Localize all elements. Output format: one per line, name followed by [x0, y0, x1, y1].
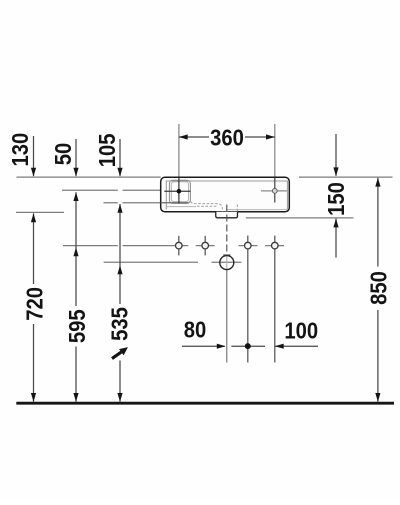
drain circle — [220, 256, 234, 270]
dimension 535 line — [119, 204, 121, 402]
floor line — [16, 402, 394, 405]
bowl bottom level line inside basin — [161, 202, 189, 204]
basin bottom level extension line — [16, 211, 64, 213]
mounting holes level extension line — [63, 245, 284, 247]
dimension 720 line — [33, 213, 35, 401]
svg-text:535: 535 — [106, 307, 133, 341]
mounting hole cross 1 — [176, 236, 183, 256]
dimension 80 line — [182, 345, 225, 347]
svg-text:100: 100 — [284, 317, 318, 344]
dimension 105 upper arrow line — [119, 139, 121, 176]
svg-text:360: 360 — [210, 124, 244, 151]
right mounting hole cross in basin — [261, 178, 287, 203]
dimension 360 extension line right — [274, 124, 276, 177]
svg-text:50: 50 — [50, 143, 77, 166]
svg-text:720: 720 — [21, 287, 48, 321]
svg-text:105: 105 — [94, 134, 121, 168]
dimension 850 line — [377, 178, 379, 402]
rim level extension line left — [17, 176, 161, 178]
mounting hole cross 4 — [272, 236, 279, 363]
basin inner bottom lines — [166, 207, 287, 210]
mounting hole cross 2 — [202, 236, 209, 256]
drain cover tab — [216, 212, 238, 218]
rim level extension line right — [299, 176, 393, 178]
bowl bottom level extension line — [104, 202, 161, 204]
tap hole level extension line — [62, 189, 161, 191]
mounting hole cross 3 — [245, 236, 252, 363]
basin outline — [161, 177, 290, 212]
dimension 595 line — [75, 192, 77, 402]
dimension 360 extension line left — [178, 124, 180, 177]
tap hole cross — [164, 178, 190, 204]
svg-text:130: 130 — [7, 133, 34, 167]
bowl inner rim — [171, 182, 188, 202]
svg-text:850: 850 — [365, 271, 392, 305]
dimension 150 lower line — [335, 219, 337, 258]
adjustable height arrow symbol — [112, 347, 128, 359]
dimension 130 upper arrow line — [33, 136, 35, 176]
dimension 150 upper line — [335, 134, 337, 176]
bowl interior ledge hidden lines — [190, 202, 237, 212]
dimension 360 line — [179, 136, 275, 138]
svg-text:80: 80 — [184, 316, 207, 343]
dimension 100 line — [275, 345, 318, 347]
front apron bottom extension line — [246, 217, 354, 219]
dimension 50 upper arrow line — [75, 139, 77, 176]
drain center line — [226, 205, 228, 255]
dimension 80/100 shared dot line — [231, 345, 265, 347]
short segment on circle top — [223, 254, 230, 256]
bowl outer rim — [169, 180, 190, 203]
svg-text:595: 595 — [64, 309, 91, 343]
basin inner rim line — [166, 181, 287, 210]
svg-text:150: 150 — [323, 182, 350, 216]
siphon level extension line — [104, 261, 242, 263]
